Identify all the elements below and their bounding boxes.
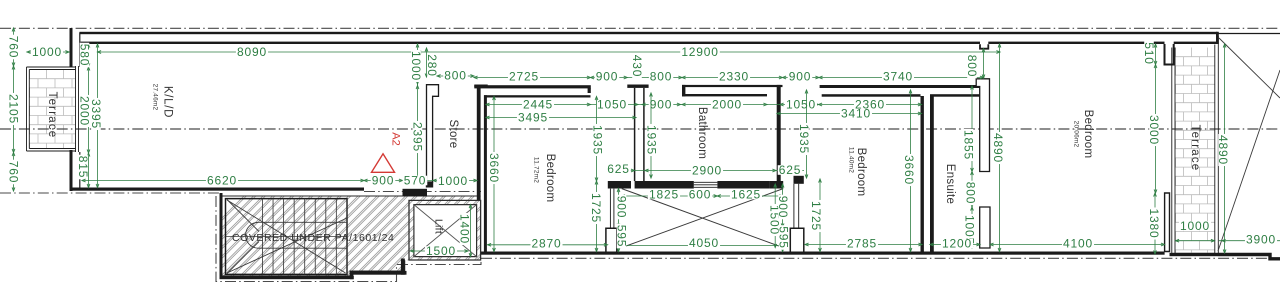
dim line 2785 <box>805 243 922 246</box>
dim 4890 right <box>1216 134 1230 166</box>
shaft cross diagonal 1 <box>622 189 784 248</box>
dim line 510 <box>1154 44 1157 65</box>
shaft north wall segment a <box>635 181 694 189</box>
dim 900 c <box>649 98 674 112</box>
svg-text:3000: 3000 <box>1147 115 1161 145</box>
red triangle marker <box>372 154 395 173</box>
dim 2445 <box>522 98 554 112</box>
bathroom north wall inner line <box>682 94 767 96</box>
dim 4890 left <box>991 132 1005 164</box>
svg-text:900: 900 <box>776 196 790 218</box>
lift shaft inner outline <box>414 205 477 257</box>
building centreline middle <box>0 128 1280 130</box>
dim 3900 <box>1245 233 1277 247</box>
bathroom west wall stem <box>635 88 644 181</box>
dim 760 bottom <box>6 160 20 185</box>
dim line shaft widths <box>622 195 784 198</box>
svg-text:4890: 4890 <box>1216 135 1230 165</box>
dim line 1000 terrace <box>27 51 70 54</box>
dim line ensuite column <box>971 49 985 248</box>
dim line 6620 <box>82 179 364 182</box>
top wall outer face <box>80 32 1218 34</box>
void diagonal 2 <box>1218 70 1280 251</box>
dim line 4890 right <box>1223 44 1226 253</box>
label covered under <box>232 232 394 244</box>
bedroom1 door jamb lines <box>610 189 614 228</box>
svg-text:800: 800 <box>444 69 466 83</box>
boundary centreline bottom left <box>0 192 219 194</box>
dim 430 <box>630 54 644 79</box>
covered area step vertical 2 <box>401 259 405 275</box>
dim 2395 <box>410 121 424 153</box>
svg-text:595: 595 <box>614 225 628 247</box>
west wall lower <box>70 150 73 191</box>
svg-text:1400: 1400 <box>457 214 471 244</box>
svg-text:1050: 1050 <box>786 98 816 112</box>
svg-text:600: 600 <box>689 188 711 202</box>
shaft north wall west block <box>608 181 631 189</box>
svg-text:Terrace: Terrace <box>1189 125 1201 172</box>
store west wall <box>427 85 439 182</box>
dim 2000 <box>77 95 91 127</box>
covered area west wall <box>220 193 223 279</box>
lift shaft outer outline <box>409 200 481 260</box>
dim line 3900 <box>1219 239 1280 242</box>
right terrace brick hatch <box>1176 48 1215 254</box>
dim 12900 <box>680 45 720 59</box>
ensuite east wall lower tab <box>980 207 990 248</box>
west wall inner face lower <box>79 152 81 188</box>
dim 800 store <box>443 69 468 83</box>
dim 800 ensuite door <box>963 181 977 206</box>
svg-text:1625: 1625 <box>731 188 761 202</box>
svg-text:3900: 3900 <box>1246 233 1276 247</box>
svg-text:2395: 2395 <box>410 122 424 152</box>
dim 4100 <box>1062 237 1094 251</box>
svg-text:4050: 4050 <box>689 236 719 250</box>
covered area south wall <box>220 276 354 279</box>
svg-text:2105: 2105 <box>6 94 20 124</box>
dim 1000 store <box>409 50 423 82</box>
svg-text:1935: 1935 <box>590 125 604 155</box>
dim 2900 <box>691 164 723 178</box>
svg-text:Bathroom: Bathroom <box>696 107 708 159</box>
svg-text:1000: 1000 <box>32 45 62 59</box>
dim 580 <box>77 43 91 68</box>
void diagonal 1 <box>1219 38 1280 98</box>
dim 625 left <box>606 162 631 176</box>
right terrace south edge <box>1170 253 1218 256</box>
dim 2105 <box>6 93 20 125</box>
dim 2725 <box>508 70 540 84</box>
dim 2360 <box>854 98 886 112</box>
svg-text:2000: 2000 <box>712 98 742 112</box>
dim 280 <box>425 53 439 78</box>
svg-text:625: 625 <box>607 162 629 176</box>
svg-text:510: 510 <box>1142 42 1156 64</box>
bedroom1 west wall <box>484 95 487 251</box>
svg-text:760: 760 <box>6 36 20 58</box>
svg-text:625: 625 <box>779 163 801 177</box>
left terrace outer wall west <box>27 67 30 151</box>
left terrace wall south <box>27 149 76 152</box>
svg-text:4890: 4890 <box>991 133 1005 163</box>
top wall recess notch 510 <box>1165 44 1174 65</box>
boundary centreline covered area <box>216 196 481 282</box>
west wall upper <box>70 28 73 67</box>
dim 1380 <box>1147 207 1161 239</box>
svg-text:900: 900 <box>650 98 672 112</box>
label Bedroom3 <box>1073 110 1094 159</box>
svg-text:800: 800 <box>650 70 672 84</box>
bathroom east wall <box>777 85 781 181</box>
dim 1400 lift <box>457 213 471 245</box>
svg-text:900: 900 <box>596 70 618 84</box>
svg-text:11.72m2: 11.72m2 <box>533 157 540 183</box>
dim line 4050 <box>622 244 784 247</box>
svg-text:1725: 1725 <box>809 201 823 231</box>
store east wall top cap <box>474 85 487 88</box>
dim 900 b <box>788 70 813 84</box>
dim 1500 lift <box>425 244 457 258</box>
dim line 1500 lift <box>411 250 469 253</box>
dim line shaft right <box>781 184 784 252</box>
svg-text:2900: 2900 <box>692 164 722 178</box>
dim 1825 <box>648 188 680 202</box>
dim line 4890 left <box>998 44 1001 252</box>
svg-text:12900: 12900 <box>681 45 718 59</box>
dim line left column <box>12 28 15 191</box>
dim 3495 <box>517 111 549 125</box>
svg-text:Ensuite: Ensuite <box>944 164 956 204</box>
dim 3660 bed2 <box>902 154 916 186</box>
dim 2330 <box>718 70 750 84</box>
stair block <box>226 199 348 275</box>
dim line 1935 bath <box>650 93 653 178</box>
boundary centreline door gap <box>364 191 481 193</box>
dim 1935 bed2 <box>797 123 811 155</box>
dim line 1935 bed2 <box>805 90 808 178</box>
dim line top row rooms <box>474 76 984 79</box>
covered area step vertical 1 <box>350 271 353 279</box>
dim 800 ensuite top <box>965 54 979 79</box>
dim 2870 <box>530 237 562 251</box>
dim 3740 <box>882 70 914 84</box>
bedroom2 east wall <box>921 96 924 252</box>
label Bathroom <box>696 107 708 159</box>
dim 815 <box>76 155 90 180</box>
dim line 1500 shaft <box>774 184 777 248</box>
store/lift shared wall <box>477 87 481 200</box>
svg-text:900: 900 <box>789 70 811 84</box>
dim 1050 b <box>785 98 817 112</box>
bedroom1 north wall inner line <box>484 95 591 97</box>
svg-text:1000: 1000 <box>409 51 423 81</box>
dim line 1935/1725 bed1 <box>595 97 598 252</box>
shaft north wall east block <box>769 181 783 189</box>
dim line 900/570/1000 <box>364 179 477 182</box>
dim 3410 <box>840 107 872 121</box>
dim 595 left <box>614 224 628 249</box>
dim 1725 bed2 <box>809 200 823 232</box>
dim 1500 shaft <box>767 204 781 236</box>
dim line 3395 <box>96 44 99 188</box>
dim line 1400 lift <box>469 205 472 257</box>
dim 625 right <box>778 163 803 177</box>
svg-text:27.46m2: 27.46m2 <box>152 84 159 111</box>
ensuite east wall upper <box>976 79 989 172</box>
svg-text:6620: 6620 <box>207 174 237 188</box>
svg-text:1000: 1000 <box>1180 219 1210 233</box>
dim line 3410 <box>777 112 922 115</box>
svg-text:1200: 1200 <box>942 237 972 251</box>
dim line 580/2000/815 <box>87 44 90 188</box>
party wall line beyond building right <box>1218 33 1280 35</box>
svg-text:Bedroom: Bedroom <box>1082 110 1094 159</box>
dim 3000 <box>1147 114 1161 146</box>
dim 3660 bed1 <box>487 152 501 184</box>
svg-text:1725: 1725 <box>589 193 603 223</box>
top wall inner face mid segment <box>988 42 1164 44</box>
left terrace wall north <box>27 67 76 70</box>
dim line 3660 bed2 <box>909 90 912 252</box>
label Lift <box>432 219 444 234</box>
boundary centreline bottom right <box>481 257 1280 259</box>
west wall inner face upper <box>79 33 81 68</box>
lift cross diagonal 2 <box>414 205 477 257</box>
right terrace sliding door (building edge) <box>1172 48 1175 254</box>
svg-text:815: 815 <box>76 156 90 178</box>
label Store <box>447 120 459 149</box>
bathroom north wall left cap <box>682 85 685 97</box>
svg-text:1500: 1500 <box>426 244 456 258</box>
bedroom1 east wall lower tab <box>606 228 617 251</box>
covered area hatch clip <box>0 0 1 1</box>
dim 1050 a <box>596 98 628 112</box>
dim line 4100 <box>990 243 1165 246</box>
dim 600 <box>688 188 713 202</box>
shaft north wall segment b <box>717 181 769 189</box>
dim line 1000/2395 store vertical <box>416 44 419 181</box>
dim 570 <box>403 174 428 188</box>
label Terrace right <box>1189 125 1201 172</box>
dim 1725 bed1 <box>589 192 603 224</box>
svg-text:2330: 2330 <box>719 70 749 84</box>
top wall inner face right segment <box>1174 42 1218 44</box>
shaft vent window <box>694 182 718 187</box>
svg-text:800: 800 <box>963 182 977 204</box>
right terrace outer wall east <box>1215 36 1219 253</box>
svg-text:580: 580 <box>77 44 91 66</box>
dim 1005 <box>962 214 976 246</box>
svg-text:1825: 1825 <box>649 188 679 202</box>
dim line 1380 <box>1154 193 1157 254</box>
dim 900 entrance <box>371 174 396 188</box>
dim 900 shaft right <box>776 195 790 220</box>
lift cross diagonal 1 <box>414 205 477 257</box>
dim 1935 bed1 <box>590 124 604 156</box>
ensuite west wall <box>930 95 934 252</box>
covered area diagonal hatch <box>140 130 930 296</box>
svg-text:1050: 1050 <box>597 98 627 112</box>
dim line 280 <box>425 48 428 77</box>
dim line 1000 terrace r <box>1176 239 1215 242</box>
dim line 8090 <box>98 51 418 54</box>
dim 1200 <box>941 237 973 251</box>
svg-text:1935: 1935 <box>797 124 811 154</box>
south wall stub at entrance <box>403 189 428 197</box>
covered area hatch boundary <box>221 196 481 276</box>
dim 1000 store door <box>437 174 469 188</box>
south wall K/L/D <box>70 188 365 191</box>
bedroom2+ensuite north wall <box>820 85 982 88</box>
dim 510 <box>1142 41 1156 66</box>
svg-text:900: 900 <box>372 174 394 188</box>
svg-text:Lift: Lift <box>432 219 444 234</box>
svg-text:Terrace: Terrace <box>46 92 58 139</box>
svg-text:1000: 1000 <box>438 174 468 188</box>
bedroom2 west wall lower tab <box>790 228 804 251</box>
bedroom1 north wall end tab <box>588 88 591 93</box>
dim 1625 <box>730 188 762 202</box>
left terrace brick hatch <box>30 70 76 149</box>
store west wall base <box>426 182 433 188</box>
svg-text:Bedroom: Bedroom <box>855 148 867 197</box>
dim line shaft left <box>617 189 620 252</box>
svg-text:COVERED UNDER PA/1601/24: COVERED UNDER PA/1601/24 <box>232 232 394 244</box>
svg-text:760: 760 <box>6 161 20 183</box>
svg-text:3395: 3395 <box>89 99 103 129</box>
svg-text:3660: 3660 <box>902 155 916 185</box>
south wall bedrooms <box>481 252 1165 255</box>
dim 4050 <box>688 236 720 250</box>
dim line 3000 <box>1154 65 1157 194</box>
dim line 12900 <box>418 51 1001 54</box>
left terrace sliding door (building edge) <box>76 66 79 152</box>
ensuite north wall inner line <box>930 94 981 97</box>
svg-text:11.40m2: 11.40m2 <box>848 147 855 173</box>
svg-text:2870: 2870 <box>532 237 562 251</box>
svg-text:3410: 3410 <box>841 107 871 121</box>
bedroom2 north wall inner line <box>822 94 921 97</box>
dim 900 a <box>595 70 620 84</box>
dim 1855 <box>961 129 975 161</box>
dim line 3495 <box>486 116 636 119</box>
dim 800 b <box>649 70 674 84</box>
svg-text:1935: 1935 <box>644 125 658 155</box>
bedroom3 east wall tab <box>1165 193 1170 252</box>
label K/L/D <box>152 84 174 118</box>
svg-text:2785: 2785 <box>847 237 877 251</box>
dim 1000 terrace r <box>1179 219 1211 233</box>
svg-text:900: 900 <box>614 196 628 218</box>
bedroom2 west wall upper stub <box>794 176 804 184</box>
covered area step ledge <box>350 271 407 275</box>
top wall inner face west segment <box>81 42 981 44</box>
dim 900 shaft left <box>614 195 628 220</box>
dim line 1725 bed2 <box>819 179 822 252</box>
dim line 2870 <box>488 243 608 246</box>
dim 1935 bath <box>644 124 658 156</box>
dim 760 top <box>6 35 20 60</box>
dim 3395 <box>89 98 103 130</box>
dim 1000 terrace <box>31 45 63 59</box>
dim line 800 store <box>437 75 474 78</box>
bathroom north wall outer line <box>682 85 783 87</box>
dim line 1200 <box>930 243 980 246</box>
svg-text:595: 595 <box>776 226 790 248</box>
svg-text:1855: 1855 <box>961 130 975 160</box>
building right corner wall <box>1216 32 1219 44</box>
svg-text:2725: 2725 <box>509 70 539 84</box>
dim 8090 <box>236 45 268 59</box>
party wall centreline top <box>0 27 1280 29</box>
bathroom west wall cap <box>627 85 648 88</box>
south wall right of terrace <box>1218 255 1280 259</box>
svg-text:3660: 3660 <box>487 153 501 183</box>
svg-text:Store: Store <box>447 120 459 149</box>
svg-text:4100: 4100 <box>1063 237 1093 251</box>
label Bedroom2 <box>848 147 867 196</box>
svg-text:A2: A2 <box>390 132 402 145</box>
label Ensuite <box>944 164 956 204</box>
top wall notch at ensuite <box>980 44 988 49</box>
svg-text:280: 280 <box>425 54 439 76</box>
svg-text:800: 800 <box>965 55 979 77</box>
red apartment marker A2 <box>390 132 402 145</box>
label Bedroom1 <box>533 154 556 203</box>
svg-text:570: 570 <box>404 174 426 188</box>
svg-text:3740: 3740 <box>883 70 913 84</box>
dim line 3660 bed1 <box>493 97 496 252</box>
svg-text:2445: 2445 <box>523 98 553 112</box>
dim 2785 <box>846 237 878 251</box>
svg-text:430: 430 <box>630 55 644 77</box>
dim line 625/2900/625 <box>609 169 804 172</box>
svg-text:Bedroom: Bedroom <box>544 154 556 203</box>
dim 595 right <box>776 225 790 250</box>
bedroom2 door jamb lines <box>794 184 799 228</box>
shaft cross diagonal 2 <box>622 189 784 248</box>
dim line second row <box>486 103 922 106</box>
svg-text:8090: 8090 <box>237 45 267 59</box>
label Terrace left <box>46 92 58 139</box>
bedroom1 north wall outer <box>474 85 591 88</box>
svg-text:20.06m2: 20.06m2 <box>1073 121 1080 148</box>
svg-text:3495: 3495 <box>518 111 548 125</box>
svg-text:1380: 1380 <box>1147 209 1161 239</box>
dim 2000 bath <box>711 98 743 112</box>
svg-text:K/L/D: K/L/D <box>161 86 173 118</box>
dim 6620 <box>206 174 238 188</box>
